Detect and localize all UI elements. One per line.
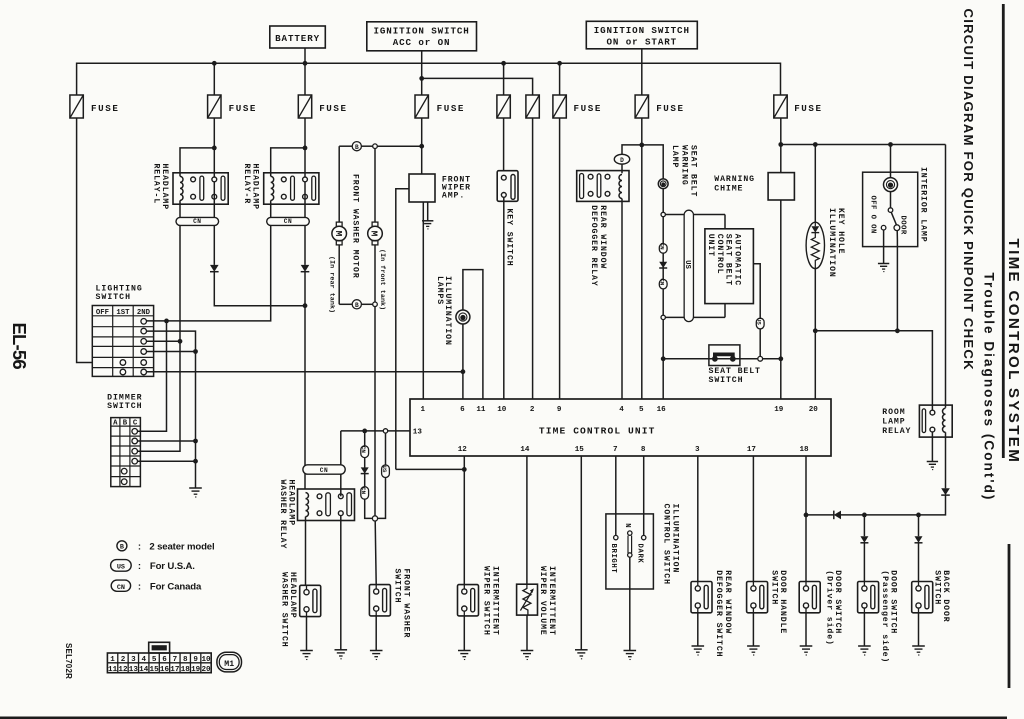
svg-text:For U.S.A.: For U.S.A. xyxy=(150,561,195,572)
interior lamp box xyxy=(863,172,918,246)
intermittent wiper volume box xyxy=(517,584,538,615)
wire fuse1 to lighting switch xyxy=(77,118,93,363)
svg-text:FUSE: FUSE xyxy=(656,103,684,114)
svg-text:US: US xyxy=(117,564,125,572)
svg-text:15: 15 xyxy=(575,446,585,454)
svg-text:ACC or ON: ACC or ON xyxy=(393,37,451,48)
svg-text:9: 9 xyxy=(557,406,562,414)
wire rail to room lamp relay coil xyxy=(945,145,947,408)
svg-text:3: 3 xyxy=(695,446,700,454)
lamp illumination lamps xyxy=(456,310,470,324)
wire fuse2 stub xyxy=(213,63,215,95)
svg-text:WARNING: WARNING xyxy=(679,145,688,186)
wire fuse9 to warning chime xyxy=(780,118,782,173)
legend connector CN xyxy=(111,580,130,591)
svg-text:AUTOMATIC: AUTOMATIC xyxy=(732,234,741,286)
svg-text:DOOR SWITCH: DOOR SWITCH xyxy=(833,570,842,634)
svg-text::: : xyxy=(138,542,141,553)
svg-text:INTERMITTENT: INTERMITTENT xyxy=(547,566,556,636)
sidebar rule under section title xyxy=(1002,4,1005,458)
wire ignition ON down xyxy=(641,49,643,95)
svg-text:M: M xyxy=(333,231,344,237)
svg-text:ROOM: ROOM xyxy=(882,408,905,417)
node rail interior lamp xyxy=(888,142,893,147)
wire motors bottom bus xyxy=(338,245,340,304)
ground pin15 xyxy=(575,649,588,651)
svg-text:KEY SWITCH: KEY SWITCH xyxy=(504,209,513,267)
svg-text:CN: CN xyxy=(360,487,367,495)
svg-text:TIME CONTROL SYSTEM: TIME CONTROL SYSTEM xyxy=(1005,239,1022,465)
connector B circle top xyxy=(352,142,361,151)
wire wiper amp ground stub xyxy=(427,202,429,221)
svg-text:ON or START: ON or START xyxy=(607,37,678,48)
connector CN washer relay xyxy=(303,465,345,474)
svg-text:17: 17 xyxy=(170,666,180,674)
svg-text:UNIT: UNIT xyxy=(706,234,715,257)
svg-text:(Driver side): (Driver side) xyxy=(824,570,834,646)
defogger relay coil xyxy=(619,175,622,199)
connector US oval right xyxy=(756,318,764,329)
svg-text:For Canada: For Canada xyxy=(150,581,202,592)
svg-text:CN: CN xyxy=(659,243,666,251)
svg-text:3: 3 xyxy=(131,656,136,664)
node interior lamp join xyxy=(895,328,900,333)
svg-text:6: 6 xyxy=(460,406,465,414)
svg-text:B: B xyxy=(355,144,359,151)
switch rear window defogger switch xyxy=(691,582,712,613)
wire diode to door switch rail xyxy=(919,495,946,515)
svg-text:10: 10 xyxy=(497,406,507,414)
ground intermittent wiper volume xyxy=(521,650,534,652)
svg-text:DOOR SWITCH: DOOR SWITCH xyxy=(889,570,898,634)
svg-text:WIPER VOLUME: WIPER VOLUME xyxy=(538,566,547,636)
ground headlamp washer switch xyxy=(300,650,313,652)
wire diode-L to join xyxy=(214,272,305,306)
diode headlamp-R xyxy=(301,265,310,272)
svg-text:A: A xyxy=(113,419,118,427)
svg-text:B: B xyxy=(355,302,359,309)
wire fuse5 to key switch xyxy=(503,118,505,175)
legend connector B xyxy=(117,541,127,551)
ground headlamp washer relay xyxy=(335,649,348,651)
svg-text:SWITCH: SWITCH xyxy=(769,570,778,605)
wire TCU pin15 to ground xyxy=(580,456,582,650)
svg-text:BACK DOOR: BACK DOOR xyxy=(941,570,950,622)
svg-text:Trouble Diagnoses (Cont'd): Trouble Diagnoses (Cont'd) xyxy=(982,273,997,502)
svg-text:19: 19 xyxy=(774,406,784,414)
wire relay-R coil out to lighting xyxy=(147,200,271,321)
node relay-L coil tap lighting row4 xyxy=(178,339,183,344)
battery box xyxy=(270,26,326,48)
wire branch to seat belt lamp xyxy=(642,145,663,179)
ground lighting/dimmer xyxy=(189,487,202,489)
wire lighting row7 to illumination lamps xyxy=(147,371,463,373)
svg-text:M1: M1 xyxy=(224,660,234,669)
wire to front motor xyxy=(374,149,376,223)
svg-text:11: 11 xyxy=(108,666,118,674)
wire to front washer switch xyxy=(375,521,376,585)
svg-text:SWITCH: SWITCH xyxy=(96,293,131,302)
wire control unit right pin xyxy=(753,264,760,357)
connector open circle seat belt switch xyxy=(758,356,763,361)
headlamp washer relay box xyxy=(298,489,355,521)
svg-text:KEY HOLE: KEY HOLE xyxy=(836,208,845,255)
node lighting row2 junction xyxy=(164,319,169,324)
wire branch to relay-L coil xyxy=(180,148,214,177)
wire defogger relay coil to TCU pin4 xyxy=(621,199,623,400)
svg-text:SWITCH: SWITCH xyxy=(709,376,744,385)
node fuse4 junction xyxy=(419,144,424,149)
svg-text:RELAY-L: RELAY-L xyxy=(151,164,160,205)
wire battery rail B+ xyxy=(77,63,781,95)
svg-text:AMP.: AMP. xyxy=(442,192,465,201)
legend connector US xyxy=(111,560,132,572)
svg-text:2ND: 2ND xyxy=(137,309,151,317)
wire door switch rail xyxy=(806,514,834,516)
battery feed wire xyxy=(304,48,306,95)
relay headlamp relay-R xyxy=(264,173,319,204)
lighting switch contacts 2ND xyxy=(141,319,147,325)
wire to rear motor xyxy=(338,146,340,222)
rear window defogger relay box xyxy=(577,171,629,202)
svg-text:WIPER SWITCH: WIPER SWITCH xyxy=(482,566,491,636)
wire bulb to switch xyxy=(890,192,892,208)
svg-text:FUSE: FUSE xyxy=(319,103,347,114)
svg-text:7: 7 xyxy=(173,656,178,664)
svg-text:WARNING: WARNING xyxy=(714,175,755,184)
svg-text:WASHER RELAY: WASHER RELAY xyxy=(278,480,287,550)
svg-text:SWITCH: SWITCH xyxy=(107,402,142,411)
wire fuse5 stub xyxy=(503,63,505,95)
motor front washer (front tank) xyxy=(372,222,378,226)
connector CN relay-L xyxy=(176,217,219,225)
svg-text:DOOR HANDLE: DOOR HANDLE xyxy=(778,570,787,634)
ground door switch passenger xyxy=(858,645,871,647)
connector top open circle xyxy=(373,144,378,149)
wire dimmer row4 out xyxy=(138,460,196,462)
warning chime box xyxy=(768,173,794,200)
ground rear window defogger switch xyxy=(692,645,705,647)
diode door switch rail xyxy=(833,511,835,520)
lighting switch table xyxy=(92,306,153,377)
svg-text:CN: CN xyxy=(117,584,125,592)
lamp seat belt warning xyxy=(658,179,668,189)
wire fuse4 junction to motors xyxy=(339,145,352,147)
node fuse9 junction xyxy=(778,142,783,147)
wire relay-L coil out to dimmer xyxy=(138,200,181,451)
svg-text:13: 13 xyxy=(413,429,423,437)
diode passenger door xyxy=(860,536,868,543)
svg-text:4: 4 xyxy=(619,406,624,414)
fuse F5 xyxy=(497,95,510,118)
svg-text:LAMP: LAMP xyxy=(882,417,905,426)
wire interior rail xyxy=(781,144,946,146)
keyhole illumination bulb xyxy=(806,222,824,268)
wire CN diode branch xyxy=(365,431,373,519)
wire US branch xyxy=(378,433,386,518)
svg-text:SEL702R: SEL702R xyxy=(64,643,73,679)
wire passenger branch xyxy=(863,515,865,536)
node seat belt switch left xyxy=(661,356,666,361)
wire rheostat to ground xyxy=(629,557,631,650)
svg-text:6: 6 xyxy=(162,656,167,664)
wire ACC branch rail xyxy=(422,78,533,95)
wire TCU pin12 xyxy=(463,456,465,585)
dimmer switch table xyxy=(111,418,141,487)
diode seat belt CN chain xyxy=(659,262,667,268)
svg-text:ILLUMINATION: ILLUMINATION xyxy=(670,504,679,574)
wire lamp group row xyxy=(815,331,932,410)
svg-text:FRONT WASHER: FRONT WASHER xyxy=(401,569,410,639)
interior lamp DOOR terminal xyxy=(894,225,900,231)
illumination control rheostat xyxy=(628,531,632,535)
wire fuse2 to relay-L contact xyxy=(213,118,215,177)
svg-text:5: 5 xyxy=(152,656,157,664)
wire wiper amp to TCU pin1 xyxy=(422,202,424,399)
wire seat belt lamp chain to TCU pin16 xyxy=(662,320,664,399)
svg-text:REAR WINDOW: REAR WINDOW xyxy=(598,205,607,269)
svg-text:IGNITION SWITCH: IGNITION SWITCH xyxy=(594,25,690,36)
fuse F4 xyxy=(415,95,428,118)
illumination control BRIGHT terminal xyxy=(614,535,618,539)
svg-text:2: 2 xyxy=(530,406,535,414)
svg-text:LAMPS: LAMPS xyxy=(435,276,444,305)
seat belt switch box xyxy=(709,345,740,366)
wire pin13 riser xyxy=(340,431,342,496)
node pin12 tap xyxy=(462,467,467,472)
wire lamp to connector xyxy=(662,189,664,213)
wire room relay contact to ground xyxy=(931,432,933,462)
svg-text:CONTROL: CONTROL xyxy=(715,234,724,275)
wire wiper amp left pin xyxy=(396,189,409,470)
wire room relay coil down xyxy=(945,432,947,488)
svg-text:SEAT BELT: SEAT BELT xyxy=(709,367,761,376)
svg-text:16: 16 xyxy=(657,406,667,414)
node fuse2 junction xyxy=(212,146,217,151)
svg-text:SEAT BELT: SEAT BELT xyxy=(724,234,733,286)
wire OFF to ground xyxy=(883,230,885,264)
wire key switch to TCU pin10 xyxy=(503,197,505,399)
svg-text:1: 1 xyxy=(421,406,426,414)
svg-text:SWITCH: SWITCH xyxy=(932,570,941,605)
svg-text:DEFOGGER SWITCH: DEFOGGER SWITCH xyxy=(714,570,723,657)
fuse F3 xyxy=(298,95,311,118)
connector B circle bottom xyxy=(352,300,361,309)
headlamp washer relay coil xyxy=(306,493,309,517)
svg-text:13: 13 xyxy=(129,666,139,674)
sidebar lower rule xyxy=(1008,544,1011,688)
diode room lamp xyxy=(941,488,950,495)
svg-text:RELAY-R: RELAY-R xyxy=(242,164,251,205)
node fuse8 junction xyxy=(639,143,644,148)
svg-text:16: 16 xyxy=(160,666,170,674)
wire to keyhole illumination xyxy=(814,145,816,223)
interior lamp bulb xyxy=(884,178,898,192)
wire TCU pin13 xyxy=(341,430,410,432)
node dimmer row2 junction xyxy=(193,439,198,444)
connector CN relay-R xyxy=(267,217,310,225)
node chime line join xyxy=(778,356,783,361)
wire CN diode chain xyxy=(662,217,664,316)
wire washer relay coil to switch xyxy=(305,517,307,586)
wire US path vertical xyxy=(688,215,690,318)
fuse F8 xyxy=(635,95,648,118)
switch front washer switch xyxy=(369,585,390,616)
connector CN oval b xyxy=(361,487,369,500)
node lighting row5 tap xyxy=(193,349,198,354)
wire seat belt switch row xyxy=(663,358,758,360)
svg-text:2 seater model: 2 seater model xyxy=(149,542,214,553)
wire TCU pin8 xyxy=(643,456,645,535)
interior lamp switch blade xyxy=(891,212,896,225)
connector CN upper xyxy=(659,244,667,254)
connector bottom open circle xyxy=(373,302,378,307)
time control unit box xyxy=(410,399,831,456)
svg-text:BATTERY: BATTERY xyxy=(275,33,320,44)
wire to chime line xyxy=(763,358,781,360)
svg-text:2: 2 xyxy=(121,656,126,664)
node ACC branch dot xyxy=(419,76,424,81)
svg-text:CN: CN xyxy=(659,278,666,286)
svg-text:15: 15 xyxy=(150,666,160,674)
node rail dot fuse5 xyxy=(501,61,506,66)
wire lamp down to pin6 xyxy=(462,324,464,399)
node dimmer row4 junction xyxy=(193,459,198,464)
svg-text:SEAT BELT: SEAT BELT xyxy=(689,145,698,197)
wire relay-L contact out xyxy=(213,182,215,265)
node illumination junction xyxy=(461,369,466,374)
connector M1 pin grid xyxy=(149,642,170,653)
ground door switch driver xyxy=(800,645,813,647)
ground illumination control xyxy=(624,650,637,652)
svg-text:IGNITION SWITCH: IGNITION SWITCH xyxy=(373,26,469,37)
svg-text:12: 12 xyxy=(118,666,128,674)
room lamp relay coil xyxy=(943,408,946,432)
lighting switch contacts 1ST xyxy=(120,360,126,366)
svg-text:7: 7 xyxy=(613,446,618,454)
automatic seat belt control unit box xyxy=(705,229,754,304)
connector CN oval a xyxy=(361,446,369,458)
relay headlamp relay-L xyxy=(173,173,228,204)
svg-text:US: US xyxy=(683,260,691,269)
wire fuse F6 to TCU pin2 xyxy=(532,118,534,399)
svg-text:8: 8 xyxy=(183,656,188,664)
svg-text:20: 20 xyxy=(809,406,819,414)
svg-text:CN: CN xyxy=(284,218,292,225)
diode washer CN branch xyxy=(361,467,369,473)
wire fuse8 to TCU pin5 xyxy=(641,118,643,399)
ground front washer switch xyxy=(370,650,383,652)
svg-text:B: B xyxy=(120,544,124,552)
svg-text:CHIME: CHIME xyxy=(714,185,743,194)
wire relay-R contact out xyxy=(304,182,306,265)
svg-text:5: 5 xyxy=(639,406,644,414)
switch door switch driver side xyxy=(799,582,820,613)
node passenger tap xyxy=(862,513,867,518)
illumination control switch box xyxy=(606,514,654,589)
dimmer contacts C xyxy=(132,429,138,435)
wire headlamp output down xyxy=(304,272,306,489)
wire lamp up to pin11 xyxy=(463,270,483,399)
svg-text:OFF: OFF xyxy=(96,309,109,317)
ignition switch ON box xyxy=(586,21,697,49)
svg-text:10: 10 xyxy=(201,656,211,664)
page bottom edge xyxy=(0,716,1007,719)
svg-text:20: 20 xyxy=(201,666,211,674)
switch intermittent wiper switch xyxy=(458,585,479,616)
wire into control unit top xyxy=(724,215,726,229)
fuse F9 xyxy=(774,95,787,118)
connector D oval xyxy=(614,154,629,164)
svg-text:US: US xyxy=(381,465,388,473)
svg-text:FUSE: FUSE xyxy=(91,103,119,114)
wire lighting row2 to dimmer row1 xyxy=(138,321,167,431)
svg-text:FUSE: FUSE xyxy=(794,103,822,114)
wire TCU pin7 xyxy=(615,456,617,535)
svg-text:M: M xyxy=(369,231,380,237)
svg-text::: : xyxy=(138,581,141,592)
svg-text:12: 12 xyxy=(458,446,468,454)
fuse F7 xyxy=(553,95,566,118)
wire branch to connector D xyxy=(622,145,642,155)
switch headlamp washer switch xyxy=(300,585,321,616)
wire fuse F7 to TCU pin9 xyxy=(559,118,561,399)
svg-text:REAR WINDOW: REAR WINDOW xyxy=(723,570,732,634)
svg-text:CN: CN xyxy=(320,467,328,474)
svg-text:RELAY: RELAY xyxy=(882,427,911,436)
wire TCU pin20 xyxy=(814,331,816,399)
connector US oval washer xyxy=(382,465,390,478)
ground room lamp relay xyxy=(927,461,938,463)
svg-text:FUSE: FUSE xyxy=(574,103,602,114)
svg-text:C: C xyxy=(133,419,138,427)
wire lighting row4 out xyxy=(147,340,181,342)
diode back door xyxy=(915,536,923,543)
node rail dot fuse2 xyxy=(212,61,217,66)
wire door switch rail right xyxy=(841,514,919,516)
wire TCU pin18 xyxy=(805,456,807,582)
connector open circle US tap xyxy=(383,429,387,433)
wire dimmer row2 out xyxy=(138,440,196,442)
ground back door switch xyxy=(912,645,925,647)
interior lamp switch pole xyxy=(888,208,893,213)
wire to interior lamp xyxy=(890,145,892,178)
diode headlamp-L xyxy=(210,265,219,272)
motor front washer (rear tank) xyxy=(336,222,342,226)
svg-text:OFF O ON: OFF O ON xyxy=(869,196,877,234)
node pin13 CN tap xyxy=(362,429,367,434)
wire TCU pin3 xyxy=(697,456,699,582)
wire front washer feed down xyxy=(374,307,376,516)
connector open circle upper xyxy=(661,212,665,216)
svg-text:(In rear tank): (In rear tank) xyxy=(328,256,336,313)
wire chime to TCU pin19 xyxy=(780,200,782,399)
svg-text:FUSE: FUSE xyxy=(229,103,257,114)
svg-text:9: 9 xyxy=(193,656,198,664)
svg-text:11: 11 xyxy=(476,406,486,414)
illumination control DARK terminal xyxy=(642,535,646,539)
svg-text:1: 1 xyxy=(110,656,115,664)
svg-text:18: 18 xyxy=(181,666,191,674)
fuse F1 xyxy=(70,95,83,118)
svg-text:DARK: DARK xyxy=(635,544,643,564)
svg-text:LAMP: LAMP xyxy=(670,145,679,168)
dimmer contacts B xyxy=(121,468,127,474)
svg-text:US: US xyxy=(756,318,763,326)
connector M1 oval xyxy=(217,652,242,672)
wire from control unit bottom xyxy=(724,304,726,318)
room lamp relay box xyxy=(919,405,952,437)
